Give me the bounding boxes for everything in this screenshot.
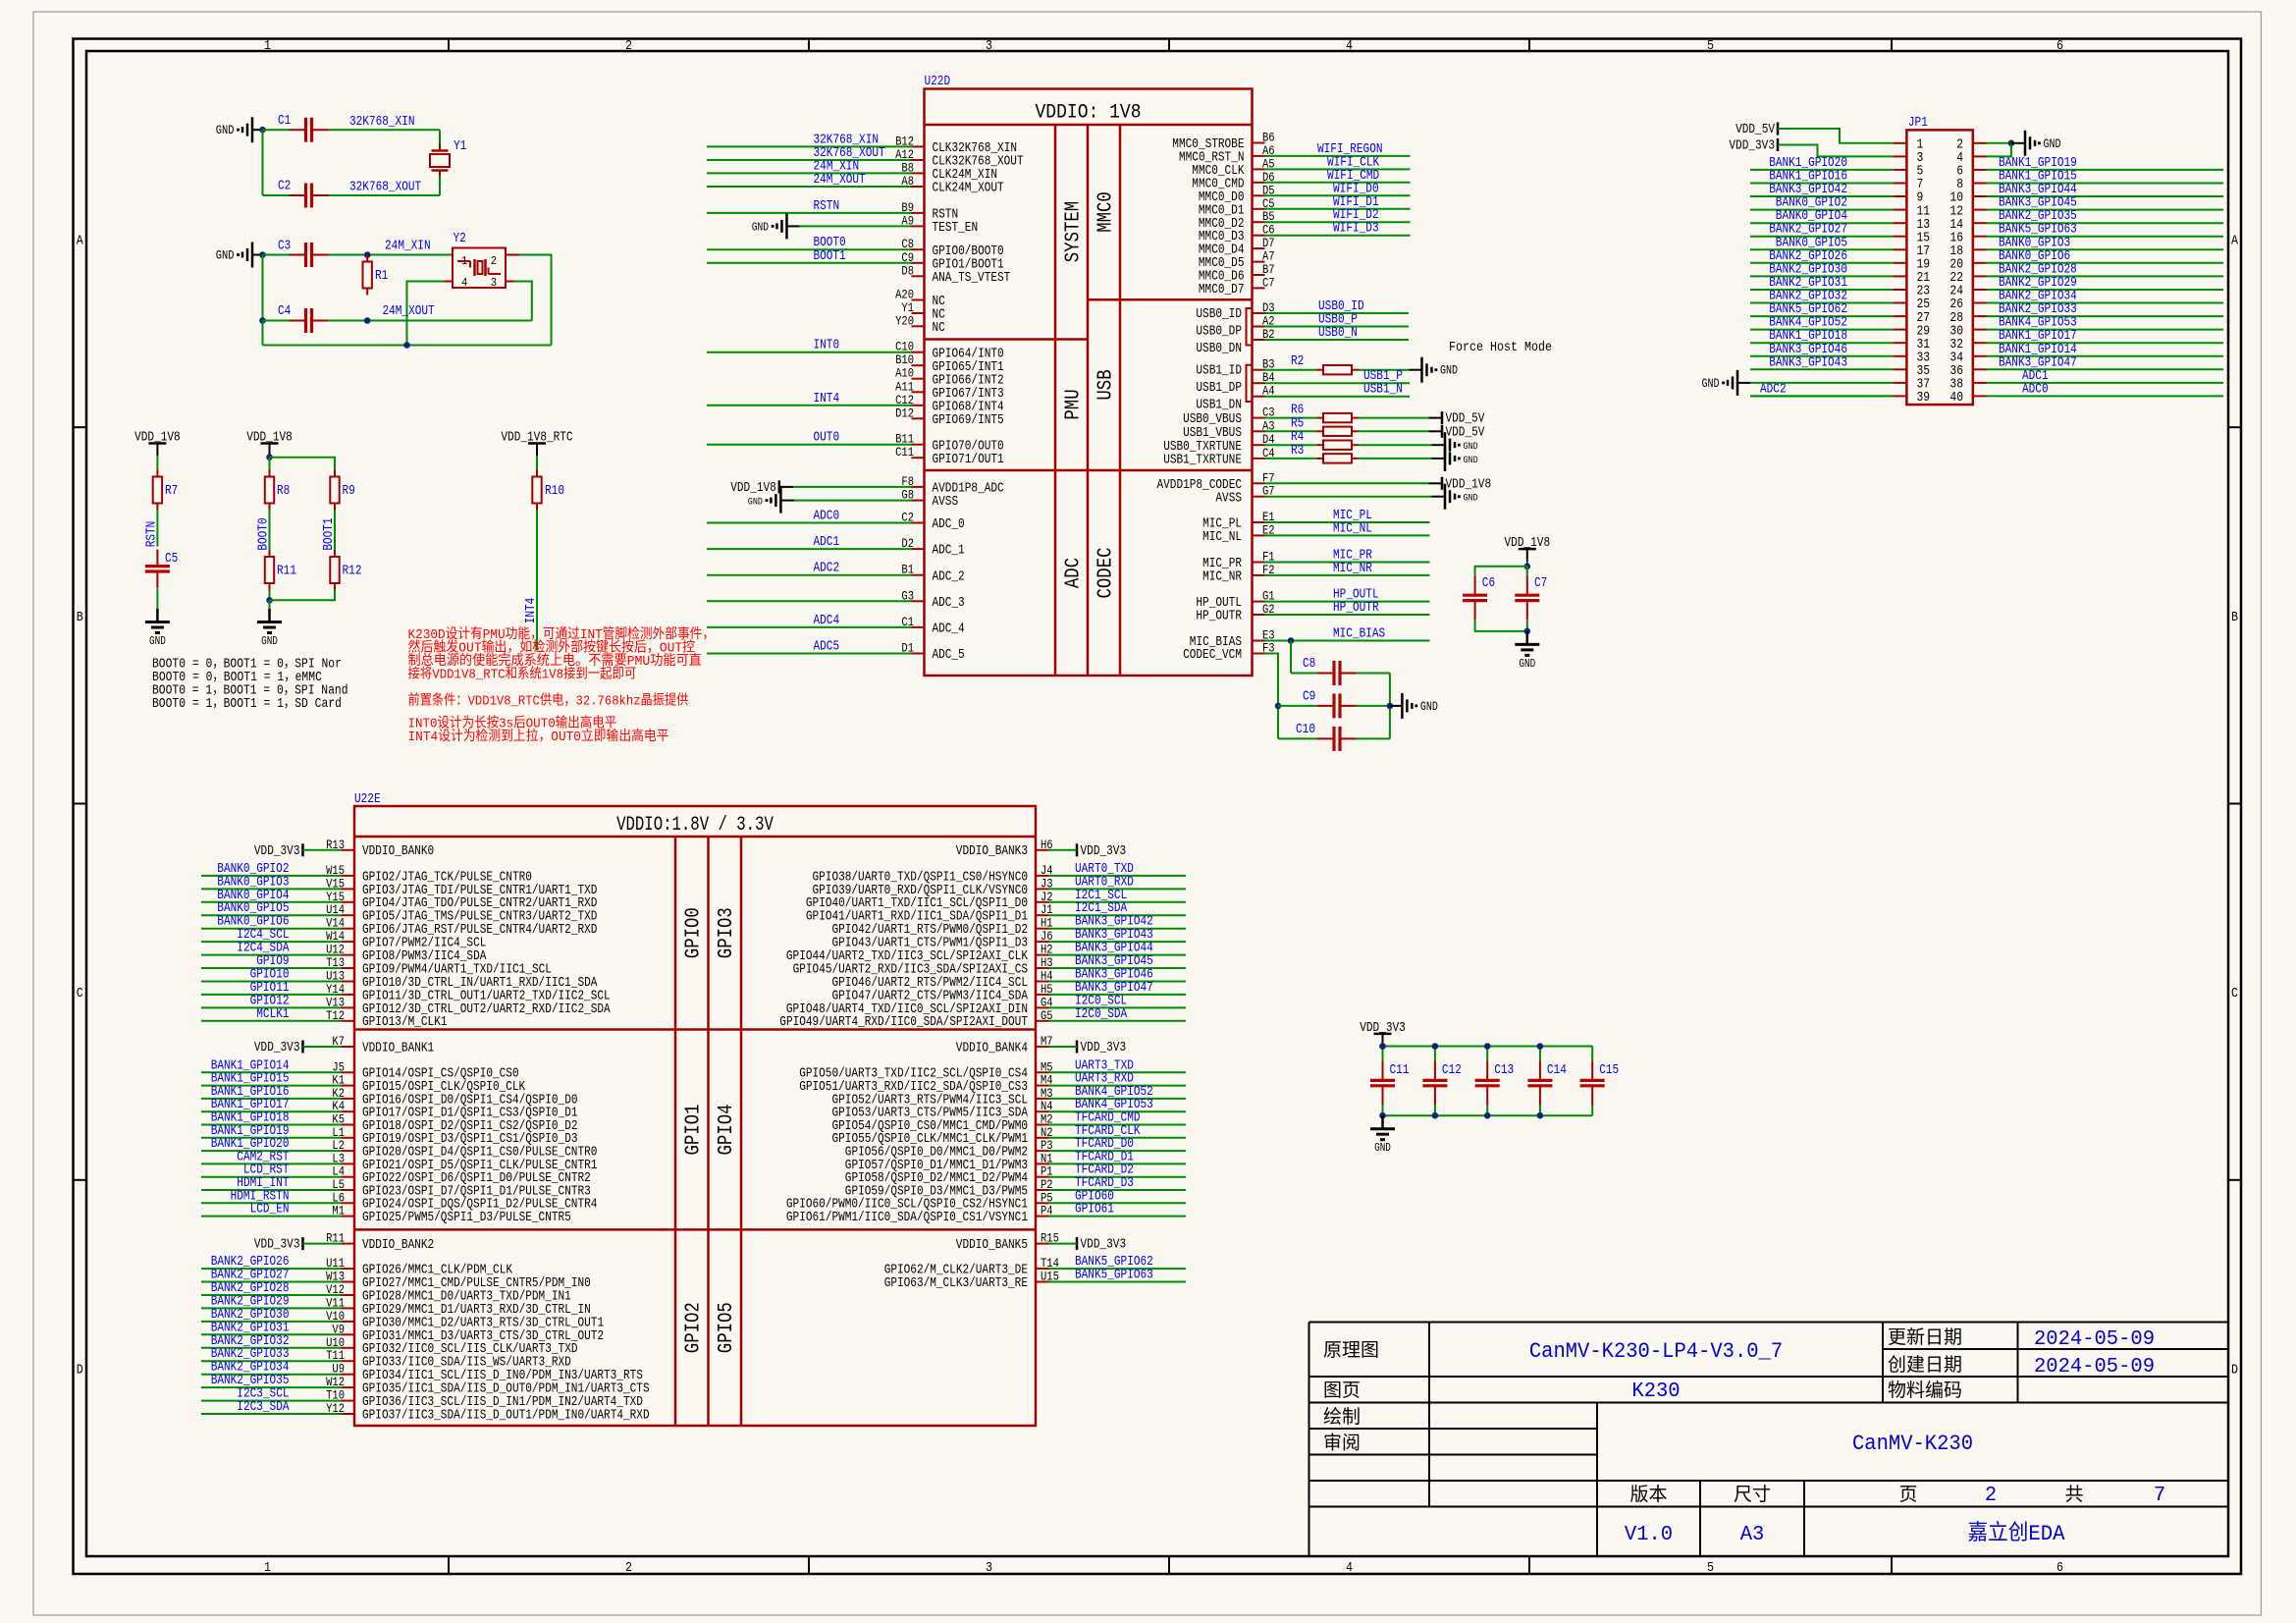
svg-text:USB1_DP: USB1_DP	[1196, 380, 1242, 396]
wire	[1049, 1202, 1187, 1204]
wire	[201, 1307, 342, 1309]
wire	[707, 548, 912, 550]
svg-text:MIC_NR: MIC_NR	[1333, 561, 1372, 576]
wire	[1390, 705, 1403, 707]
svg-text:4: 4	[461, 276, 467, 290]
pin F1 MIC_PR	[1202, 550, 1275, 572]
wire	[1750, 368, 1894, 370]
wire	[252, 129, 263, 131]
wire	[329, 254, 454, 256]
svg-text:MMC0_D7: MMC0_D7	[1199, 282, 1245, 298]
wire	[1778, 145, 1894, 157]
svg-text:VDDIO_BANK4: VDDIO_BANK4	[956, 1040, 1028, 1055]
wire	[303, 1046, 343, 1048]
wire	[707, 522, 912, 524]
pin B10 GPIO65/INT1	[895, 352, 1004, 375]
power VDD_5V	[1735, 122, 1778, 137]
wire	[201, 1281, 342, 1283]
wire	[1987, 142, 2011, 144]
pin M2 GPIO54/QSPI0_CS0/MMC1_CMD/PWM0	[832, 1112, 1053, 1134]
junction	[1537, 1043, 1544, 1050]
wire	[1265, 382, 1411, 384]
wire	[707, 600, 912, 602]
pin B6 MMC0_STROBE	[1172, 131, 1274, 153]
wire	[1049, 1268, 1187, 1270]
wire	[1987, 302, 2224, 304]
wire	[1265, 482, 1429, 484]
pin 17	[1894, 244, 1931, 259]
pin 14	[1949, 218, 1986, 233]
pin 35	[1894, 364, 1931, 379]
svg-text:接将VDD1V8_RTC和系统1V8接到一起即可: 接将VDD1V8_RTC和系统1V8接到一起即可	[408, 666, 637, 683]
wire	[1049, 1006, 1187, 1008]
svg-text:5: 5	[1707, 1560, 1714, 1576]
svg-text:I2C3_SDA: I2C3_SDA	[237, 1399, 290, 1415]
pin 4	[1956, 151, 1986, 166]
wire	[1987, 169, 2224, 171]
IC U22D title band line	[925, 124, 1253, 127]
wire	[252, 254, 263, 256]
wire	[1049, 1110, 1187, 1112]
wire	[201, 1321, 342, 1323]
svg-text:GND: GND	[149, 635, 166, 648]
pin K7 VDDIO_BANK1	[332, 1034, 434, 1055]
pin Y1 NC	[901, 300, 944, 323]
wire	[514, 282, 532, 321]
svg-text:页: 页	[1899, 1485, 1918, 1506]
wire	[1987, 382, 2224, 384]
pin J2 GPIO40/UART1_TXD/IIC1_SCL/QSPI1_D0	[806, 890, 1053, 911]
wire	[707, 653, 912, 655]
svg-text:R2: R2	[1291, 353, 1304, 369]
wire	[1432, 444, 1446, 446]
pin B2 USB0_DN	[1196, 327, 1274, 356]
wire	[1049, 981, 1187, 983]
svg-text:1: 1	[264, 38, 271, 54]
pin 12	[1949, 204, 1986, 219]
svg-text:LCD_EN: LCD_EN	[250, 1202, 290, 1217]
pin 6	[1956, 165, 1986, 180]
wire	[201, 1374, 342, 1376]
svg-text:GND: GND	[216, 248, 235, 263]
pin A11 GPIO67/INT3	[895, 379, 1004, 402]
power VDD_1V8_RTC	[501, 430, 572, 457]
pin U14 GPIO5/JTAG_TMS/PULSE_CNTR3/UART2_TXD	[326, 902, 597, 924]
pin B3 USB1_ID	[1196, 357, 1274, 379]
wire	[1987, 143, 2011, 157]
note PMU description	[408, 626, 716, 683]
pin G3 ADC_3	[901, 588, 964, 611]
wire	[1049, 901, 1187, 903]
wire	[1265, 574, 1430, 576]
svg-text:GPIO3: GPIO3	[716, 907, 738, 958]
pin R15 VDDIO_BANK5	[956, 1231, 1059, 1253]
wire	[707, 212, 912, 214]
svg-text:BANK3_GPIO43: BANK3_GPIO43	[1769, 354, 1847, 370]
IC U22E section divider BANK0/BANK1	[354, 1028, 1036, 1031]
pin 25	[1894, 298, 1931, 312]
wire	[201, 941, 342, 943]
resistor R3	[1291, 443, 1359, 463]
pin 30	[1949, 324, 1986, 339]
svg-text:VDD_3V3: VDD_3V3	[254, 843, 300, 859]
wire	[439, 177, 441, 195]
svg-text:GND: GND	[1519, 658, 1535, 671]
wire	[519, 255, 552, 346]
svg-text:6: 6	[2056, 1560, 2063, 1576]
wire	[201, 1294, 342, 1296]
pin 29	[1894, 324, 1931, 339]
pin T13 GPIO9/PWM4/UART1_TXD/IIC1_SCL	[326, 955, 552, 977]
svg-text:2: 2	[491, 254, 497, 268]
wire	[1049, 914, 1187, 916]
wire	[269, 600, 271, 609]
svg-text:2: 2	[1985, 1485, 1997, 1507]
svg-text:Force Host Mode: Force Host Mode	[1449, 340, 1552, 355]
pin 5	[1894, 165, 1924, 180]
svg-text:版本: 版本	[1630, 1484, 1668, 1506]
wire	[1750, 395, 1894, 397]
wire	[1987, 368, 2224, 370]
row tick marks right	[2228, 427, 2241, 1180]
pin B12 CLK32K768_XIN	[895, 134, 1017, 156]
wire	[201, 994, 342, 996]
wire	[1987, 395, 2224, 397]
svg-text:GND: GND	[261, 635, 278, 648]
wire	[1359, 444, 1432, 446]
wire	[1383, 1114, 1593, 1116]
title block table	[1309, 1323, 2229, 1557]
svg-text:C3: C3	[278, 239, 291, 254]
svg-text:绘制: 绘制	[1323, 1406, 1361, 1429]
wire	[1987, 209, 2224, 211]
svg-text:VDD_3V3: VDD_3V3	[1081, 1040, 1127, 1055]
pin 40	[1949, 391, 1986, 406]
pin P1 GPIO58/QSPI0_D2/MMC1_D2/PWM4	[845, 1164, 1053, 1186]
wire	[1475, 567, 1527, 575]
capacitor C11	[1370, 1060, 1410, 1105]
svg-text:GPIO4: GPIO4	[716, 1105, 738, 1156]
wire	[1429, 430, 1443, 432]
IC U22D section divider SYSTEM/PMU	[925, 338, 1089, 341]
pin A3 USB1_VBUS	[1183, 418, 1275, 441]
resistor R10	[532, 470, 564, 511]
wire	[1356, 705, 1390, 707]
IC U22E band lines	[675, 837, 741, 1426]
ground	[752, 213, 787, 239]
svg-text:3: 3	[986, 38, 992, 54]
wire	[1049, 1163, 1187, 1164]
wire	[1434, 1047, 1436, 1061]
svg-text:GPIO5: GPIO5	[716, 1302, 738, 1353]
wire	[201, 1202, 342, 1204]
svg-text:共: 共	[2065, 1484, 2084, 1506]
power VDD_3V3	[1077, 1040, 1126, 1055]
svg-text:WIFI_D3: WIFI_D3	[1333, 221, 1379, 237]
svg-text:R8: R8	[277, 483, 290, 499]
svg-text:R12: R12	[343, 564, 362, 579]
svg-text:GPIO63/M_CLK3/UART3_RE: GPIO63/M_CLK3/UART3_RE	[884, 1275, 1028, 1291]
wire	[1750, 195, 1894, 197]
wire	[263, 345, 552, 347]
pin C9 GPIO1/BOOT1	[901, 250, 1003, 273]
svg-text:MIC_BIAS: MIC_BIAS	[1333, 626, 1385, 642]
wire	[201, 1360, 342, 1362]
wire	[1432, 458, 1446, 460]
svg-text:ADC_3: ADC_3	[933, 595, 965, 611]
svg-text:3: 3	[491, 276, 497, 290]
pin C2 ADC_0	[901, 511, 964, 533]
pin Y15 GPIO4/JTAG_TDO/PULSE_CNTR2/UART1_RXD	[326, 890, 597, 911]
svg-text:GND: GND	[1464, 493, 1478, 505]
wire	[707, 145, 912, 147]
wire	[1750, 342, 1894, 344]
pin V14 GPIO6/JTAG_RST/PULSE_CNTR4/UART2_RXD	[326, 916, 597, 938]
wire	[1265, 208, 1411, 210]
pin B8 CLK24M_XIN	[901, 160, 997, 183]
IC U22D section divider MMC0/USB	[1088, 298, 1253, 301]
junction	[364, 251, 371, 258]
row tick marks left	[74, 427, 87, 1180]
svg-text:CLK24M_XOUT: CLK24M_XOUT	[933, 181, 1004, 196]
pin 16	[1949, 231, 1986, 245]
pin K4 GPIO17/OSPI_D1/QSPI1_CS3/QSPI0_D1	[332, 1099, 577, 1120]
svg-text:GND: GND	[1440, 363, 1458, 378]
ground	[2025, 131, 2061, 156]
power VDD_3V3	[1729, 138, 1778, 154]
pin A7 MMC0_D5	[1199, 249, 1275, 272]
pin U11 GPIO26/MMC1_CLK/PDM_CLK	[326, 1256, 512, 1277]
pin W15 GPIO2/JTAG_TCK/PULSE_CNTR0	[326, 863, 532, 885]
power VDD_3V3	[1077, 843, 1126, 859]
power VDD_3V3	[254, 1237, 303, 1253]
svg-text:GND: GND	[752, 220, 769, 234]
wire	[1750, 183, 1894, 185]
svg-text:前置条件：VDD1V8_RTC供电，32.768khz晶振提: 前置条件：VDD1V8_RTC供电，32.768khz晶振提供	[408, 692, 689, 710]
svg-text:ADC_5: ADC_5	[933, 647, 965, 663]
ground	[748, 488, 781, 514]
pin V15 GPIO3/JTAG_TDI/PULSE_CNTR1/UART1_TXD	[326, 876, 597, 897]
power VDD_3V3	[254, 843, 303, 859]
svg-text:BANK5_GPIO63: BANK5_GPIO63	[1075, 1268, 1153, 1283]
wire	[1265, 521, 1430, 523]
wire	[201, 1189, 342, 1191]
svg-text:BOOT1: BOOT1	[814, 248, 846, 264]
pin W14 GPIO7/PWM2/IIC4_SCL	[326, 929, 486, 950]
pin 39	[1894, 391, 1931, 406]
pin J1 GPIO41/UART1_RXD/IIC1_SDA/QSPI1_D1	[806, 902, 1053, 924]
power VDD_3V3	[1360, 1020, 1406, 1047]
pin M3 GPIO52/UART3_RTS/PWM4/IIC3_SCL	[832, 1086, 1053, 1108]
wire	[1265, 640, 1430, 642]
ground	[216, 117, 252, 142]
pin H1 GPIO42/UART1_RTS/PWM0/QSPI1_D2	[832, 916, 1053, 938]
wire	[1987, 195, 2224, 197]
svg-text:USB1_TXRTUNE: USB1_TXRTUNE	[1163, 453, 1242, 468]
wire	[1265, 235, 1411, 237]
pin B4 USB1_DP	[1196, 370, 1274, 396]
junction	[1275, 703, 1282, 710]
wire	[1049, 941, 1187, 943]
wire	[201, 1124, 342, 1126]
svg-text:A: A	[77, 234, 83, 249]
wire	[1429, 482, 1443, 484]
wire	[156, 588, 158, 609]
resistor R7	[153, 470, 179, 511]
wire	[1591, 1047, 1593, 1061]
svg-text:GPIO1: GPIO1	[683, 1105, 706, 1156]
resistor R8	[265, 470, 291, 511]
column tick marks bottom	[449, 1556, 1892, 1574]
svg-text:VDD_3V3: VDD_3V3	[1081, 1237, 1127, 1253]
svg-text:24M_XIN: 24M_XIN	[385, 239, 431, 254]
pin A8 CLK24M_XOUT	[901, 174, 1003, 196]
power VDD_5V	[1442, 424, 1485, 440]
svg-text:VDD_5V: VDD_5V	[1446, 424, 1485, 440]
pin P5 GPIO60/PWM0/IIC0_SCL/QSPI0_CS2/HSYNC1	[786, 1190, 1053, 1212]
wire	[1429, 417, 1443, 419]
svg-text:C2: C2	[278, 179, 291, 194]
capacitor C9	[1303, 688, 1357, 718]
wire	[262, 130, 264, 195]
wire	[1382, 1045, 1384, 1047]
capacitor C14	[1527, 1060, 1567, 1105]
ground	[1702, 370, 1738, 396]
power VDD_1V8	[134, 430, 181, 457]
svg-text:ADC0: ADC0	[2022, 381, 2049, 397]
svg-text:PMU: PMU	[1062, 389, 1085, 419]
svg-text:R11: R11	[277, 564, 296, 579]
wire	[1750, 236, 1894, 238]
pin 20	[1949, 258, 1986, 273]
wire	[1750, 355, 1894, 357]
pin R13 VDDIO_BANK0	[326, 838, 434, 859]
svg-text:更新日期: 更新日期	[1888, 1326, 1962, 1349]
svg-text:C9: C9	[1303, 688, 1315, 704]
pin M7 VDDIO_BANK4	[956, 1034, 1053, 1055]
wire	[1265, 444, 1317, 446]
svg-text:VDD_5V: VDD_5V	[1735, 122, 1775, 137]
svg-text:GPIO0: GPIO0	[683, 907, 706, 958]
svg-text:24M_XOUT: 24M_XOUT	[383, 303, 435, 319]
resistor R12	[330, 550, 361, 590]
wire	[1049, 954, 1187, 956]
column tick marks top	[449, 39, 1892, 52]
junction	[1484, 1112, 1491, 1119]
pin C10 GPIO64/INT0	[895, 340, 1004, 362]
pin N4 GPIO53/UART3_CTS/PWM5/IIC3_SDA	[832, 1099, 1053, 1120]
pin E2 MIC_NL	[1202, 522, 1275, 545]
pin E3 MIC_BIAS	[1190, 628, 1275, 651]
svg-text:C12: C12	[1442, 1062, 1462, 1078]
svg-text:C: C	[77, 986, 83, 1001]
wire	[1987, 315, 2224, 317]
svg-text:C4: C4	[278, 303, 291, 319]
wire	[1750, 169, 1894, 171]
wire	[1750, 395, 1894, 397]
ground	[1515, 631, 1539, 671]
wire	[1539, 1106, 1541, 1115]
svg-text:图页: 图页	[1323, 1380, 1361, 1402]
wire	[1049, 994, 1187, 996]
wire	[1049, 888, 1187, 890]
wire	[1265, 601, 1430, 603]
wire	[1539, 1047, 1541, 1061]
pin A10 GPIO66/INT2	[895, 366, 1004, 389]
capacitor C1	[278, 113, 329, 142]
svg-text:RSTN: RSTN	[814, 198, 840, 214]
IC U22D band lines	[1055, 125, 1120, 676]
wire	[707, 262, 912, 264]
wire	[1434, 1106, 1436, 1115]
capacitor C8	[1303, 656, 1357, 685]
pin W13 GPIO27/MMC1_CMD/PULSE_CNTR5/PDM_IN0	[326, 1270, 591, 1292]
ground	[257, 609, 282, 648]
ground	[145, 609, 170, 648]
pin 3 stub	[506, 281, 514, 283]
svg-text:40: 40	[1949, 391, 1963, 406]
wire	[1049, 928, 1187, 930]
pin A12 CLK32K768_XOUT	[895, 147, 1024, 170]
pin L4 GPIO22/OSPI_D6/QSPI1_D0/PULSE_CNTR2	[332, 1164, 590, 1186]
junction	[1379, 1112, 1386, 1119]
pin F8 AVDD1P8_ADC	[901, 474, 1003, 497]
note INT0/INT4 behaviour	[408, 715, 669, 746]
svg-text:VDD_3V3: VDD_3V3	[254, 1237, 300, 1253]
svg-text:ADC0: ADC0	[814, 509, 840, 524]
pin P3 GPIO56/QSPI0_D0/MMC1_D0/PWM2	[845, 1138, 1053, 1160]
wire	[1278, 737, 1317, 739]
svg-text:2024-05-09: 2024-05-09	[2034, 1328, 2155, 1351]
svg-text:创建日期: 创建日期	[1888, 1354, 1962, 1377]
wire	[707, 172, 912, 174]
svg-text:C10: C10	[1296, 722, 1315, 737]
junction	[1288, 637, 1295, 644]
wire	[1049, 849, 1078, 851]
svg-text:GND: GND	[1374, 1142, 1391, 1155]
wire	[1359, 369, 1410, 371]
wire	[1265, 396, 1411, 398]
wire	[2011, 142, 2025, 144]
svg-text:VDDIO: 1V8: VDDIO: 1V8	[1036, 102, 1142, 125]
svg-text:32K768_XOUT: 32K768_XOUT	[349, 180, 421, 195]
wire	[1049, 1046, 1078, 1048]
svg-text:GPIO71/OUT1: GPIO71/OUT1	[933, 452, 1004, 467]
svg-text:GPIO37/IIC3_SDA/IIS_D_OUT1/PDM: GPIO37/IIC3_SDA/IIS_D_OUT1/PDM_IN0/UART4…	[362, 1408, 650, 1424]
svg-text:CODEC_VCM: CODEC_VCM	[1183, 647, 1242, 663]
wire	[262, 255, 264, 321]
IC U22E title band line	[354, 836, 1036, 839]
svg-text:INT4: INT4	[814, 391, 840, 406]
pin Y14 GPIO11/3D_CTRL_OUT1/UART2_TXD/IIC2_SCL	[326, 982, 611, 1003]
pin B7 MMC0_D6	[1199, 262, 1275, 285]
wire	[1049, 1020, 1187, 1022]
svg-text:I2C0_SDA: I2C0_SDA	[1075, 1006, 1128, 1022]
pin C6 MMC0_D3	[1199, 223, 1275, 245]
capacitor C13	[1475, 1060, 1515, 1105]
wire	[1382, 1047, 1384, 1061]
wire	[1526, 621, 1528, 631]
wire	[303, 849, 343, 851]
pin A5 MMC0_CLK	[1192, 156, 1274, 179]
wire	[269, 456, 271, 458]
wire	[201, 1163, 342, 1164]
svg-text:GND: GND	[748, 497, 763, 509]
wire	[1410, 369, 1422, 371]
pin J3 GPIO39/UART0_RXD/QSPI1_CLK/VSYNC0	[813, 876, 1053, 897]
ground	[1445, 432, 1478, 458]
svg-text:BOOT0 = 1，BOOT1 = 1，SD Card: BOOT0 = 1，BOOT1 = 1，SD Card	[152, 696, 342, 712]
